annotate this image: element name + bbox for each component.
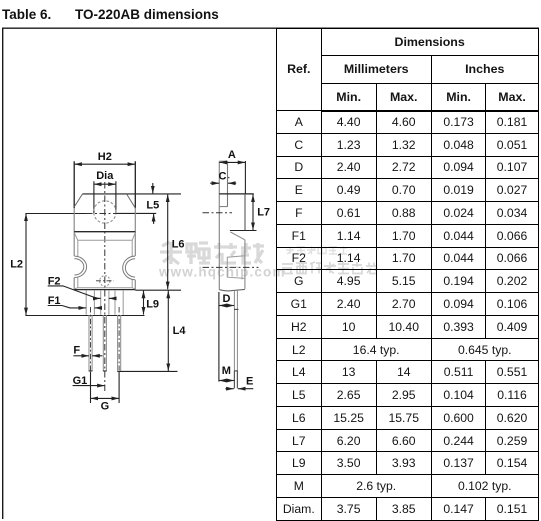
- lead (side view): [234, 291, 237, 389]
- dimension L7: [252, 194, 254, 230]
- mounting hole: [94, 201, 116, 223]
- hole centerline (side view): [203, 212, 233, 214]
- dimension L5 bottom arrow: [153, 214, 155, 224]
- wide lead shoulders (3 leads): [86, 290, 123, 315]
- L7 bottom reference line: [230, 230, 257, 232]
- svg-text:L5: L5: [146, 199, 159, 211]
- dimension G arrow line: [91, 397, 120, 399]
- svg-text:F: F: [73, 345, 80, 357]
- lead shoulder tick: [234, 308, 238, 310]
- body side edges (gray, interrupted by notches): [74, 208, 135, 289]
- dimension M arrow line: [219, 380, 234, 382]
- small dot after C: [228, 177, 230, 179]
- watermark: big gray CJK characters (pseudo-glyphs): [160, 242, 264, 264]
- lead tip reference line (L4 bottom): [120, 370, 178, 372]
- svg-text:L4: L4: [173, 325, 187, 337]
- svg-text:A: A: [228, 149, 236, 161]
- dimension L2: [25, 213, 27, 315]
- narrow leads (3): [89, 315, 121, 371]
- dimension F1 arrows at lead 1: [78, 307, 86, 309]
- dimension Dia extension lines: [94, 181, 116, 213]
- small circle horizontal centerline: [96, 280, 114, 282]
- dimension F2 arrows at lead 2: [95, 297, 101, 299]
- dimension H2 arrow line: [74, 163, 135, 165]
- pellet bump outline: [227, 256, 245, 279]
- svg-text:L7: L7: [257, 207, 270, 219]
- svg-text:L9: L9: [146, 299, 159, 311]
- dimension G extension lines: [91, 372, 120, 403]
- dimension L5 top arrow: [152, 183, 154, 194]
- tab front edge: [227, 161, 229, 206]
- tab chamfer diagonals: [74, 194, 135, 208]
- svg-text:L6: L6: [172, 238, 185, 250]
- title: [2, 7, 51, 22]
- lead tip segment (darker): [234, 371, 237, 389]
- notch centerline (side view): [203, 266, 259, 268]
- svg-text:G: G: [101, 401, 110, 413]
- lead jog tick: [234, 370, 238, 372]
- body step diagonal: [230, 232, 245, 240]
- hole horizontal centerline: [25, 212, 86, 214]
- lead 1 centerline: [90, 307, 92, 371]
- dimensions table: [276, 28, 539, 521]
- tab back edge: [218, 161, 220, 289]
- tab chamfer step: [219, 206, 227, 208]
- svg-text:Dia: Dia: [96, 170, 114, 182]
- watermark: small CJK line 1 over table: [286, 247, 347, 255]
- body inner face outline: [78, 240, 132, 287]
- svg-text:C: C: [219, 170, 227, 182]
- body corner chamfer diagonals: [74, 233, 135, 289]
- tab side edges (dark upper part): [74, 161, 135, 208]
- svg-text:www.hqchip.com: www.hqchip.com: [158, 264, 286, 279]
- L5 lower reference line: [117, 212, 156, 214]
- vertical centerline (hole + lead 2): [104, 182, 106, 392]
- svg-text:M: M: [222, 365, 231, 377]
- dimension E arrows: [225, 388, 233, 390]
- body front edge upper: [244, 194, 246, 231]
- right side notch arcs: [123, 256, 135, 280]
- svg-text:L2: L2: [10, 259, 23, 271]
- dimension A arrow line: [219, 161, 245, 163]
- dimension C arrows: [210, 182, 219, 184]
- svg-text:H2: H2: [98, 151, 112, 163]
- left side notch arcs: [74, 256, 86, 277]
- svg-text:E: E: [246, 376, 253, 388]
- dimension L6: [167, 194, 169, 289]
- small front circle: [100, 276, 110, 286]
- shoulder end reference line (L2/L9 bottom): [25, 315, 144, 317]
- svg-text:D: D: [223, 293, 231, 305]
- dimension D extension line: [218, 292, 220, 382]
- tab front face ridge + right extension line: [82, 193, 181, 195]
- body top line (L7 top reference): [219, 193, 254, 195]
- tab top edge: [219, 160, 227, 162]
- dimension D arrow line: [219, 305, 234, 307]
- lead tips: [89, 370, 122, 373]
- lead 3 centerline: [118, 307, 120, 371]
- body bottom right extension line: [135, 289, 181, 291]
- body bottom edge (side): [219, 289, 245, 291]
- watermark: small CJK line 2 over table: [282, 262, 377, 274]
- dimension L4: [167, 291, 169, 371]
- dimension L9: [143, 291, 145, 315]
- tab/body step line: [74, 231, 135, 233]
- body front edge lower: [244, 240, 246, 289]
- body bottom edge: [74, 289, 135, 291]
- dimension A right extension line: [244, 161, 246, 194]
- dimension Dia arrow line: [94, 183, 116, 185]
